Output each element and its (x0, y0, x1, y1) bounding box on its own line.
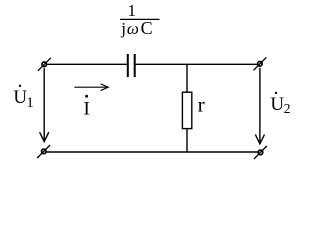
svg-text:C: C (141, 18, 153, 38)
resistor r (182, 92, 191, 128)
svg-text:ω: ω (127, 19, 139, 38)
label U2 (270, 92, 290, 116)
terminal top-left (38, 58, 51, 71)
label U1 (13, 85, 33, 111)
svg-text:j: j (120, 19, 126, 38)
current arrow I (74, 84, 108, 91)
svg-text:2: 2 (284, 101, 291, 116)
svg-text:1: 1 (128, 1, 137, 20)
capacitor C (plates) (128, 54, 135, 77)
wire resistor branch top (186, 64, 188, 92)
svg-text:I: I (84, 99, 90, 120)
svg-text:U: U (270, 94, 284, 115)
voltage arrow U1 (40, 68, 49, 141)
wire top-right segment (136, 63, 258, 65)
label I (84, 95, 90, 120)
terminal bottom-left (37, 145, 50, 158)
wire bottom (47, 151, 258, 153)
voltage arrow U2 (255, 68, 264, 144)
svg-text:1: 1 (26, 95, 34, 111)
terminal top-right (254, 57, 267, 70)
terminal bottom-right (254, 146, 267, 159)
label 1/(jwC) (120, 1, 160, 38)
svg-text:r: r (198, 93, 205, 117)
wire top-left segment (47, 63, 127, 65)
wire resistor branch bottom (186, 129, 188, 152)
